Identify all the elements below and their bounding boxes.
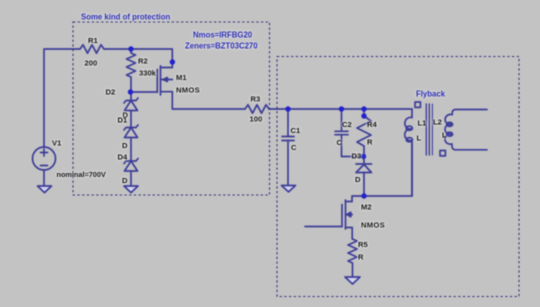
wire M2 gate: [305, 226, 342, 228]
svg-text:D4: D4: [118, 153, 128, 162]
resistor R1: [80, 45, 104, 53]
wire R3 to rail: [269, 108, 412, 110]
nmos M2: [342, 200, 352, 229]
svg-text:C2: C2: [342, 120, 352, 129]
ground under diode chain: [124, 186, 138, 193]
svg-text:330k: 330k: [139, 69, 157, 78]
svg-text:R: R: [358, 253, 364, 262]
component labels (black): [52, 36, 447, 262]
svg-text:D: D: [122, 141, 128, 150]
svg-text:V1: V1: [52, 138, 62, 147]
svg-text:D3: D3: [352, 152, 362, 161]
wire D3/M2 drain to L1 bottom: [364, 143, 412, 196]
svg-text:D: D: [355, 175, 361, 184]
svg-text:D1: D1: [118, 115, 128, 124]
svg-text:NMOS: NMOS: [176, 86, 200, 95]
svg-text:Some kind of protection: Some kind of protection: [81, 12, 170, 21]
svg-text:M1: M1: [176, 73, 187, 82]
svg-text:L: L: [442, 130, 447, 139]
zener D2: [124, 92, 138, 128]
dashed box 2: flyback converter: [277, 57, 519, 297]
svg-text:Nmos=IRFBG20: Nmos=IRFBG20: [193, 31, 253, 40]
dashed box 1: protection: [73, 22, 270, 195]
svg-text:R1: R1: [88, 36, 98, 45]
resistor R3: [245, 105, 269, 113]
svg-text:R: R: [367, 138, 373, 147]
ground under C1: [282, 186, 296, 192]
junction dots: [128, 46, 367, 198]
svg-text:R5: R5: [358, 240, 368, 249]
svg-text:R3: R3: [251, 95, 261, 104]
zener D4: [124, 159, 138, 187]
wire node to M1 drain: [131, 49, 172, 68]
svg-text:D: D: [122, 176, 128, 185]
svg-text:M2: M2: [361, 203, 372, 212]
wire M2 source to R5: [351, 228, 353, 240]
nmos M1: [157, 66, 172, 95]
voltage source V1: [33, 147, 56, 170]
svg-text:R4: R4: [367, 120, 377, 129]
svg-text:100: 100: [250, 115, 263, 124]
phase square L2: [440, 151, 445, 156]
svg-text:C: C: [291, 143, 297, 152]
annotation text (blue): [81, 12, 446, 98]
svg-text:nominal=700V: nominal=700V: [57, 170, 106, 179]
resistor R2: [127, 49, 136, 92]
capacitor C2: [335, 109, 364, 157]
phase square L1: [415, 102, 420, 107]
svg-text:R2: R2: [138, 57, 148, 66]
svg-text:Zeners=BZT03C270: Zeners=BZT03C270: [185, 42, 258, 51]
transformer core: [426, 104, 432, 155]
resistor R5: [348, 239, 357, 277]
resistor R4: [357, 109, 371, 157]
wire R1 to node: [104, 48, 131, 50]
wire V1 top to R1: [44, 49, 80, 147]
wire D2 node to M1 gate: [131, 91, 158, 93]
svg-text:NMOS: NMOS: [361, 221, 385, 230]
svg-text:Flyback: Flyback: [416, 89, 446, 98]
svg-text:L: L: [417, 134, 422, 143]
svg-text:L2: L2: [433, 118, 442, 127]
inductor L1: [405, 109, 413, 196]
diode D3: [356, 157, 372, 197]
svg-text:C1: C1: [291, 126, 301, 135]
ground under V1: [38, 186, 52, 193]
svg-text:200: 200: [85, 58, 98, 67]
svg-text:L1: L1: [418, 119, 428, 128]
wire M2 drain: [352, 196, 364, 202]
svg-text:D2: D2: [106, 88, 116, 97]
ground under R5: [345, 277, 360, 284]
zener D1: [124, 125, 138, 161]
inductor L2: [445, 110, 487, 150]
svg-text:C: C: [337, 138, 343, 147]
wire V1 to ground: [43, 170, 45, 186]
capacitor C1: [282, 109, 294, 186]
wire M1 source to R3: [172, 92, 245, 109]
